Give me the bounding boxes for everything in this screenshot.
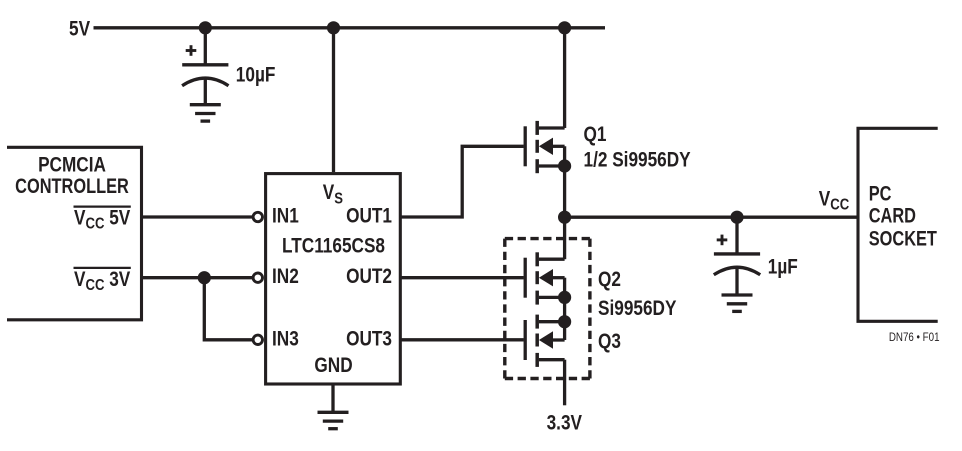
svg-text:10µF: 10µF — [236, 64, 276, 87]
capacitor C1 10µF — [182, 45, 228, 85]
svg-text:Q2: Q2 — [598, 269, 621, 292]
svg-text:LTC1165CS8: LTC1165CS8 — [282, 235, 385, 258]
wire C1 to ground — [204, 79, 207, 105]
ground U1 — [318, 412, 349, 428]
junction rail-Q1 — [558, 21, 571, 34]
PCMCIA controller box — [7, 147, 142, 319]
PC card socket box — [858, 128, 938, 321]
svg-text:SOCKET: SOCKET — [869, 227, 938, 250]
svg-text:CONTROLLER: CONTROLLER — [15, 174, 129, 197]
wire VS supply — [332, 28, 335, 172]
dashed box Q2 Q3 — [505, 239, 590, 379]
pin label VCC 3V with overline — [74, 268, 131, 294]
transistor Q1 — [525, 121, 564, 173]
wire Q1 drain to rail — [563, 28, 566, 128]
wire OUT3 to Q3 gate — [400, 338, 523, 341]
wire Q2 body chain to Q3 — [563, 278, 566, 340]
junction node-C2 — [730, 211, 743, 224]
wire GND to ground — [331, 386, 334, 413]
wire OUT2 to Q2 gate — [400, 276, 523, 279]
junction Q2 source-body — [558, 291, 571, 304]
IC U1 LTC1165CS8 box — [266, 174, 401, 384]
svg-text:CARD: CARD — [869, 204, 916, 227]
pin circle IN3 — [253, 335, 262, 344]
junction IN2 branch — [198, 271, 211, 284]
svg-text:1/2 Si9956DY: 1/2 Si9956DY — [584, 149, 691, 172]
pin label VCC 5V with overline — [74, 207, 131, 233]
ground C1 — [190, 105, 221, 121]
pin circle IN2 — [253, 273, 262, 282]
junction rail-VS — [327, 21, 340, 34]
svg-text:GND: GND — [314, 355, 352, 378]
svg-text:5V: 5V — [69, 18, 90, 41]
wire Q1 body-source to node — [563, 146, 566, 217]
wire output node to socket — [565, 216, 857, 219]
svg-text:Si9956DY: Si9956DY — [598, 297, 677, 320]
wire branch to IN3 — [204, 278, 252, 340]
wire OUT1 to Q1 gate — [400, 146, 523, 217]
junction rail-C1 — [199, 21, 212, 34]
svg-text:IN3: IN3 — [272, 328, 299, 351]
transistor Q3 — [525, 315, 564, 367]
wire VCC3V to IN2 — [143, 276, 252, 279]
wire 5V rail — [94, 26, 606, 29]
junction Q3 drain-body — [558, 315, 571, 328]
ground C2 — [722, 295, 753, 311]
junction output node — [558, 211, 571, 224]
wire node to C2 — [735, 217, 738, 254]
svg-text:OUT3: OUT3 — [346, 328, 392, 351]
transistor Q2 — [525, 252, 564, 304]
pin circle IN1 — [253, 212, 262, 221]
svg-text:IN2: IN2 — [272, 266, 299, 289]
svg-text:Q3: Q3 — [598, 330, 621, 353]
wire C2 to ground — [735, 268, 738, 295]
svg-text:IN1: IN1 — [272, 205, 299, 228]
wire VCC5V to IN1 — [143, 215, 252, 218]
wire Q3 source to 3.3V — [563, 360, 566, 406]
svg-text:3.3V: 3.3V — [547, 412, 583, 435]
svg-text:DN76 • F01: DN76 • F01 — [889, 331, 940, 344]
svg-text:OUT2: OUT2 — [346, 266, 392, 289]
svg-text:PC: PC — [869, 181, 892, 204]
svg-text:Q1: Q1 — [584, 123, 607, 146]
junction Q1 source-body — [558, 159, 571, 172]
capacitor C2 1µF — [714, 235, 760, 275]
svg-text:OUT1: OUT1 — [346, 205, 392, 228]
wire rail to C1 — [204, 28, 207, 65]
wire node to Q2 drain — [563, 217, 566, 259]
svg-text:1µF: 1µF — [768, 256, 798, 279]
